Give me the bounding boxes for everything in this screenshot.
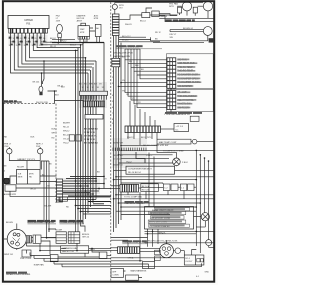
bundle wire labels row xyxy=(79,84,105,89)
svg-text:WH-12: WH-12 xyxy=(60,41,67,43)
svg-text:RD 12: RD 12 xyxy=(155,32,162,34)
wire v3 xyxy=(80,45,82,219)
svg-text:BLK: BLK xyxy=(55,95,60,97)
small box near bottom border xyxy=(126,275,139,280)
svg-text:BLK: BLK xyxy=(31,136,36,138)
display connector xyxy=(125,126,161,133)
svg-text:BU-12: BU-12 xyxy=(63,135,70,137)
svg-text:BK-WH: BK-WH xyxy=(45,205,52,207)
border frame xyxy=(3,1,214,282)
damper motor box xyxy=(78,23,90,36)
svg-text:25W: 25W xyxy=(36,146,40,148)
defrost thermostat xyxy=(173,158,181,166)
svg-text:MTR: MTR xyxy=(94,18,99,20)
svg-text:MTR: MTR xyxy=(169,6,174,8)
svg-text:MAX TEMP CONT: MAX TEMP CONT xyxy=(159,141,177,144)
wire pin6 xyxy=(30,33,86,58)
harness evap label box xyxy=(61,246,89,253)
wire v7 xyxy=(90,70,92,207)
long label box row xyxy=(148,135,190,137)
svg-text:WH: WH xyxy=(52,133,56,135)
cluster out wires xyxy=(63,196,111,198)
L-bend feeders to terminal strips xyxy=(119,49,168,108)
water valve circle xyxy=(112,4,117,14)
start relay box xyxy=(68,232,80,244)
svg-text:EVAP FAN: EVAP FAN xyxy=(34,264,44,267)
wire v4 xyxy=(82,42,84,219)
wire pin8 xyxy=(37,33,80,48)
max temp control thin box xyxy=(157,139,197,144)
svg-text:W/P: W/P xyxy=(112,271,117,273)
svg-text:GY-12: GY-12 xyxy=(63,139,70,141)
bottom right wires xyxy=(111,227,214,278)
small box below labels xyxy=(190,116,199,121)
svg-text:BLK: BLK xyxy=(52,129,57,131)
defrost corner labels xyxy=(113,142,132,166)
wire v2 xyxy=(77,48,79,219)
svg-text:MAIN HARNESS: MAIN HARNESS xyxy=(131,270,147,273)
right edge verticals xyxy=(195,150,197,246)
box at divider xyxy=(111,269,124,278)
svg-text:RC-1: RC-1 xyxy=(185,258,191,260)
small box right xyxy=(99,252,107,259)
svg-text:GRN: GRN xyxy=(90,249,95,251)
svg-text:TO DEFROST TSTAT: TO DEFROST TSTAT xyxy=(163,149,184,152)
run cap box xyxy=(56,232,66,244)
svg-text:DAMPER: DAMPER xyxy=(77,14,86,17)
svg-text:BK-14: BK-14 xyxy=(140,20,146,22)
small rect pair mid-left xyxy=(69,135,81,141)
wire junction drop xyxy=(48,91,58,104)
bus labels xyxy=(60,41,87,47)
wires below legend xyxy=(140,192,214,261)
svg-text:RD 14 B: RD 14 B xyxy=(142,190,150,192)
bus stubs xyxy=(52,28,95,39)
run capacitor small circle xyxy=(206,240,212,246)
dark box right xyxy=(209,38,214,42)
wires from tall connector xyxy=(114,36,161,233)
wire conn to box xyxy=(161,128,175,130)
lamp FZ light xyxy=(57,24,63,43)
bundle connector C2 dark xyxy=(84,101,105,107)
fan motor RC xyxy=(193,2,213,19)
svg-text:OR-12: OR-12 xyxy=(30,188,37,190)
svg-text:+12 1-3: +12 1-3 xyxy=(176,126,184,128)
svg-text:U.I.: U.I. xyxy=(176,130,180,132)
svg-text:BK-WH: BK-WH xyxy=(6,222,13,224)
small box under cluster xyxy=(59,197,68,201)
wire pin2 xyxy=(14,33,90,70)
ice maker box xyxy=(17,170,41,185)
pin labels row1 xyxy=(9,38,47,47)
svg-text:MKR: MKR xyxy=(18,176,23,178)
svg-text:RD-WH: RD-WH xyxy=(17,167,24,169)
component bus wires xyxy=(52,28,104,43)
strip row labels xyxy=(177,58,200,109)
svg-text:GRD: GRD xyxy=(205,272,210,274)
small connector left pair xyxy=(112,58,120,67)
strip downs xyxy=(130,88,171,126)
small box drop xyxy=(59,197,61,202)
+12 UI box xyxy=(174,124,189,132)
aux motor dark xyxy=(4,178,10,184)
wires below connector xyxy=(128,133,157,146)
heavy corner wire xyxy=(136,152,145,163)
compressor motor xyxy=(160,244,181,258)
svg-text:25W: 25W xyxy=(4,146,8,148)
svg-text:WH 124 12B: WH 124 12B xyxy=(36,102,48,104)
svg-text:SW: SW xyxy=(170,37,173,39)
condenser fan box xyxy=(126,166,175,174)
wires around connector row xyxy=(111,186,214,207)
bundle label rows lower xyxy=(84,129,98,145)
connector strip vertical center xyxy=(57,179,63,202)
wire v1 xyxy=(75,50,77,219)
svg-text:CONN: CONN xyxy=(112,275,119,277)
side text column xyxy=(3,123,70,145)
zone divider vertical cabinet-left xyxy=(55,104,57,203)
cluster extra wires xyxy=(63,176,111,203)
zone divider horizontal left xyxy=(3,103,56,105)
lamp FZ cabinet xyxy=(39,86,43,95)
wire lamp branch xyxy=(41,73,43,86)
small box bottom center xyxy=(143,262,155,269)
wire connector stub xyxy=(55,100,85,102)
top right cluster boxes xyxy=(142,11,159,18)
wire pin5 xyxy=(26,33,96,61)
legend row2 xyxy=(149,211,186,214)
svg-text:OL RLY: OL RLY xyxy=(185,261,193,263)
svg-text:DMP: DMP xyxy=(80,29,85,31)
svg-text:BK RD WH BU: BK RD WH BU xyxy=(84,129,98,131)
evap fan motor xyxy=(7,229,26,248)
svg-text:RD-12: RD-12 xyxy=(63,127,70,129)
lamp drop xyxy=(57,42,59,44)
svg-text:AUG: AUG xyxy=(94,14,99,17)
svg-text:WH-14: WH-14 xyxy=(122,39,129,41)
pin label smudges xyxy=(9,37,46,46)
wire v6 xyxy=(87,73,89,213)
top edge wire xyxy=(115,3,203,5)
cab lamp A xyxy=(7,147,27,161)
svg-text:12 14 12 18: 12 14 12 18 xyxy=(84,138,95,141)
right border return wire xyxy=(213,18,215,247)
wire pin7 xyxy=(33,33,78,50)
wire pin4 xyxy=(22,33,94,64)
aux box xyxy=(5,185,16,191)
svg-text:MWP 1-R: MWP 1-R xyxy=(4,254,13,256)
small junction box xyxy=(50,255,58,262)
tall connector strip xyxy=(112,14,119,36)
damper pin feet xyxy=(78,37,90,40)
label band smudges xyxy=(3,19,195,222)
svg-text:PNK 1: PNK 1 xyxy=(146,155,153,157)
legend row1 xyxy=(154,208,189,211)
svg-text:RD-WH: RD-WH xyxy=(55,229,63,231)
svg-text:VLV: VLV xyxy=(119,8,123,10)
stub labels right of pins xyxy=(50,38,57,48)
wire pin10 xyxy=(45,33,104,42)
wire branch2 xyxy=(43,61,45,84)
svg-text:BK-14 12: BK-14 12 xyxy=(122,36,131,38)
icemaker wires xyxy=(10,176,17,184)
compressor connector strip xyxy=(118,247,140,254)
wire pin9 xyxy=(41,33,83,45)
legend box xyxy=(145,207,194,230)
svg-text:GRY-14: GRY-14 xyxy=(82,237,90,239)
terminal strip 2 xyxy=(167,91,176,110)
svg-text:WH: WH xyxy=(135,65,139,67)
connector pin row P1 xyxy=(9,29,48,34)
svg-text:GY TN OR YL: GY TN OR YL xyxy=(84,136,97,138)
legend row4 xyxy=(148,220,186,223)
overload relay box xyxy=(184,255,204,265)
left middle labels xyxy=(3,163,108,208)
wire v10 xyxy=(103,42,105,188)
svg-text:MTR: MTR xyxy=(80,32,85,34)
svg-text:MTR: MTR xyxy=(29,173,34,175)
motor lower box xyxy=(22,250,31,257)
relay box mid xyxy=(141,184,159,192)
wire lamp join xyxy=(27,161,40,170)
svg-text:BK/WH: BK/WH xyxy=(63,123,70,125)
svg-text:BK-WH-14 TO RC-2 GRN-YL BK: BK-WH-14 TO RC-2 GRN-YL BK xyxy=(148,241,178,243)
svg-text:HD: HD xyxy=(29,176,32,178)
compressor side ticks xyxy=(155,250,161,255)
svg-text:ASSY: ASSY xyxy=(77,20,83,23)
svg-text:BK-WH-14: BK-WH-14 xyxy=(183,28,194,30)
svg-text:WH-GY: WH-GY xyxy=(125,24,133,26)
bottom-left wires xyxy=(26,219,110,267)
svg-text:BK 124: BK 124 xyxy=(33,82,41,84)
svg-text:BK-14: BK-14 xyxy=(70,45,77,47)
legend row3 xyxy=(151,216,184,220)
right bundle verticals xyxy=(113,36,115,233)
svg-text:BK RD WH BU: BK RD WH BU xyxy=(84,143,98,145)
svg-text:TN-12: TN-12 xyxy=(63,143,70,145)
bus line A xyxy=(52,42,104,44)
svg-text:WH-GACDSE L PCB: WH-GACDSE L PCB xyxy=(114,52,134,55)
svg-text:RD-14 BK-14: RD-14 BK-14 xyxy=(128,172,142,174)
bundle connector J3 xyxy=(80,91,108,99)
bundle connector J4 xyxy=(85,115,103,120)
terminal strip 1 xyxy=(167,58,176,89)
wires to fans xyxy=(119,8,214,22)
small box pair B xyxy=(180,184,194,191)
motor connector pair xyxy=(26,236,31,243)
svg-text:WH-14: WH-14 xyxy=(161,16,168,18)
water valve box xyxy=(95,24,101,42)
motor side box xyxy=(33,235,41,243)
feeder labels xyxy=(112,57,144,125)
cabinet harness connector row xyxy=(120,184,139,192)
wire pin1 xyxy=(11,33,89,73)
wires mid right xyxy=(114,142,214,253)
svg-text:CONDENSER FAN MOT: CONDENSER FAN MOT xyxy=(128,168,152,171)
legend lamp xyxy=(194,213,210,227)
svg-text:RD: RD xyxy=(52,138,55,140)
svg-text:PNK: PNK xyxy=(3,136,8,138)
wire v9 xyxy=(95,61,97,197)
svg-text:WH-12: WH-12 xyxy=(63,131,70,133)
small box pair A xyxy=(163,184,178,191)
svg-text:GRN-YL: GRN-YL xyxy=(158,232,167,234)
legend row5 xyxy=(149,224,190,227)
central vertical bundle xyxy=(76,42,105,219)
svg-text:PNK LT BLK: PNK LT BLK xyxy=(20,258,32,260)
wire v5 xyxy=(85,58,87,219)
bottom-left vertical feeders xyxy=(42,161,50,238)
control board U1 xyxy=(8,16,49,29)
legend feeder verticals xyxy=(149,153,154,207)
svg-text:2 BLK: 2 BLK xyxy=(182,162,188,164)
wire v8 xyxy=(92,67,94,203)
defrost tick row xyxy=(113,148,146,151)
svg-text:WM: WM xyxy=(3,165,7,167)
svg-text:25W: 25W xyxy=(56,21,60,23)
terminal area enclosure lower xyxy=(166,89,213,111)
svg-text:12 14 12 18: 12 14 12 18 xyxy=(84,131,95,134)
svg-text:P.B.: P.B. xyxy=(26,22,31,25)
cluster heavy wires xyxy=(63,181,111,194)
extra condenser-zone wires xyxy=(121,183,163,184)
staircase wires from board pins xyxy=(11,33,105,104)
svg-text:BK 14 A: BK 14 A xyxy=(142,185,150,188)
cab lamp B xyxy=(38,147,43,170)
right mid wires xyxy=(151,30,208,43)
wire pin3 xyxy=(18,33,92,67)
fan motor FZ xyxy=(177,2,192,16)
svg-text:FRZ FAN: FRZ FAN xyxy=(169,2,178,5)
scan density washes xyxy=(9,35,148,194)
door lamp circle xyxy=(203,27,212,41)
svg-text:RD: RD xyxy=(84,41,87,43)
zone divider vertical center xyxy=(110,2,112,281)
svg-text:BRN-14: BRN-14 xyxy=(82,234,90,236)
terminal area enclosure upper xyxy=(166,54,213,89)
svg-text:BK-12: BK-12 xyxy=(58,86,64,88)
